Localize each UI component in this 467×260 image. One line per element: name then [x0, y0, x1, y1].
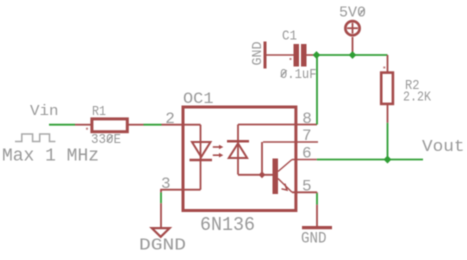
wire C1 to junction [307, 54, 315, 56]
supply 5V0 [345, 21, 359, 55]
resistor R1 [75, 119, 144, 132]
wire net R1 to pin2 [144, 124, 162, 126]
junction at R2/Vout [384, 156, 392, 164]
svg-text:DGND: DGND [139, 237, 186, 256]
svg-text:OC1: OC1 [183, 90, 214, 108]
capacitor C1 [290, 44, 307, 67]
svg-text:2.2K: 2.2K [403, 91, 432, 106]
wire pin7 down to base node [261, 142, 263, 175]
ground DGND symbol [152, 228, 170, 237]
svg-text:3: 3 [161, 175, 171, 193]
optocoupler OC1 box [183, 107, 296, 211]
wire Vout net [317, 159, 423, 161]
wire top net [314, 54, 388, 56]
ground GND at pin5 [302, 226, 332, 229]
pin 3 [160, 189, 200, 191]
pin 5 [292, 191, 317, 193]
pin 6 [292, 159, 317, 161]
wire down to pin 8 [316, 55, 318, 125]
svg-text:R1: R1 [92, 105, 106, 120]
pin 7 [263, 141, 318, 143]
svg-text:330E: 330E [91, 133, 121, 148]
wire pin5 down [316, 191, 318, 194]
LED light arrows [213, 145, 224, 158]
svg-text:6N136: 6N136 [200, 214, 255, 236]
svg-text:5: 5 [302, 178, 312, 196]
transistor Q inside OC1 [273, 159, 293, 195]
junction at 5V0 [349, 51, 357, 59]
svg-text:5V0: 5V0 [339, 6, 366, 22]
svg-text:7: 7 [302, 127, 312, 145]
resistor R2 [381, 55, 393, 123]
junction base node [259, 171, 266, 178]
svg-text:Vout: Vout [422, 137, 465, 156]
GND symbol at C1 [265, 42, 294, 69]
wire R2 down to Vout net [387, 123, 389, 160]
svg-text:GND: GND [301, 230, 327, 248]
svg-text:Vin: Vin [30, 103, 59, 120]
wire pin3 down [160, 190, 162, 193]
svg-text:6: 6 [302, 145, 312, 163]
svg-text:Max 1 MHz: Max 1 MHz [2, 146, 99, 167]
svg-text:0.1uF: 0.1uF [280, 68, 317, 83]
LED inside OC1 [190, 125, 213, 190]
junction at C1 [313, 51, 321, 59]
wire photodiode to base node [238, 174, 273, 176]
pin 2 [162, 124, 201, 126]
square wave input symbol [15, 134, 55, 142]
pin 8 [238, 124, 317, 126]
svg-text:C1: C1 [282, 30, 297, 45]
svg-text:GND: GND [251, 42, 266, 66]
svg-text:8: 8 [302, 110, 312, 128]
wire net Vin to R1 [49, 124, 75, 126]
photodiode inside OC1 [227, 125, 249, 175]
svg-text:2: 2 [165, 110, 175, 128]
